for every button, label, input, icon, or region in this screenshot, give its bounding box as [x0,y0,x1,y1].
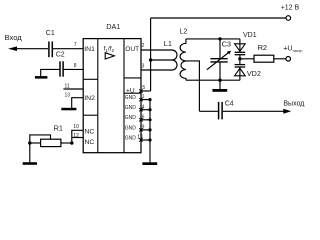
svg-text:C1: C1 [46,30,55,37]
wire +12V rail [151,17,286,19]
svg-text:L2: L2 [180,29,188,36]
IC left column divider IN1/IN2 [83,78,98,80]
svg-text:VD1: VD1 [243,32,257,39]
junction pin10/12 and R1 [70,141,73,144]
wire VD1 anode [239,39,241,44]
wire varicap node to R2 [240,58,254,60]
IC right column divider +U/GND [124,92,141,94]
svg-text:9: 9 [142,125,145,131]
wire R1 right lead [61,142,72,144]
IC right column divider OUT/+U [124,77,141,79]
svg-text:DA1: DA1 [106,22,120,31]
wire output to C4 [199,110,218,112]
junction C3 bottom [218,79,221,82]
pin number 4 [142,104,145,110]
svg-text:R1: R1 [54,124,63,133]
pin 13 stub wire to ground [72,98,84,108]
label C2 [56,51,65,58]
pin 9 GND stub [141,129,150,131]
svg-text:L1: L1 [164,39,172,48]
label C3 [222,40,231,49]
capacitor C3 adjustment arrow [207,51,231,70]
label DA1 [106,22,120,31]
pin 4 GND stub [141,109,150,111]
label IN1 [84,46,95,53]
label GND pin1 [125,95,137,101]
wire pin2 to L1 top [141,49,172,51]
ground (IC GND bus) [142,162,157,165]
svg-text:C4: C4 [225,101,234,108]
pin number 3 [142,63,145,69]
svg-text:Выход: Выход [283,100,304,107]
wire L2 tap to output [186,61,200,111]
wire C1 to pin7 [53,48,83,50]
varicap VD2 [235,65,246,76]
svg-text:GND: GND [125,105,137,111]
svg-text:13: 13 [65,92,71,98]
svg-text:NC: NC [85,139,95,146]
svg-text:2: 2 [142,43,145,49]
svg-text:10: 10 [73,124,79,130]
GND bus vertical wire [149,100,151,163]
svg-text:C2: C2 [56,51,65,58]
wire C3 bottom lead [219,63,221,90]
wire VD1-VD2 middle [239,55,241,65]
svg-text:VD2: VD2 [247,69,261,78]
wire tank top rail [186,38,240,40]
label VD1 [243,32,257,39]
resistor R2 body [254,55,274,62]
ground (C3 / tank) [212,89,227,92]
pin number 2 [142,43,145,49]
junction C3 top [218,37,221,40]
ground (pin 13) [61,108,76,111]
svg-text:GND: GND [125,115,137,121]
pin 6 nonlogic mark [139,118,142,121]
IC left column divider IN2/NC [83,114,98,116]
wire +12V vertical [150,18,152,91]
wire C2 to pin8 [64,68,83,70]
label IN2 [84,95,95,102]
wire C3 top lead [219,39,221,58]
IC internal divider right [123,39,125,153]
svg-text:GND: GND [125,95,137,101]
svg-text:GND: GND [125,125,137,131]
label NC pin12 [85,139,95,146]
capacitor C4 [219,102,223,120]
svg-text:f1/f2: f1/f2 [104,46,115,53]
label VD2 [247,69,261,78]
pin 9 nonlogic mark [139,128,142,131]
pin number 1 [142,94,145,100]
ground (C2 branch) [35,76,48,79]
svg-text:OUT: OUT [125,46,139,53]
label NC pin10 [85,129,95,136]
svg-text:R2: R2 [258,43,267,52]
junction GND pin6 [148,118,151,121]
wire input to C1 [15,48,48,50]
label R2 [258,43,267,52]
label L2 [180,29,188,36]
label GND pin4 [125,105,137,111]
pin 5 +U stub wire [141,90,151,92]
svg-text:1: 1 [142,94,145,100]
label C1 [46,30,55,37]
varicap VD1 [235,44,246,55]
IC internal divider left [97,39,99,153]
svg-text:3: 3 [142,63,145,69]
svg-text:Вход: Вход [5,33,23,42]
label +U настр [283,44,302,54]
junction GND pin4 [148,108,151,111]
label GND pin14 [125,135,137,141]
label GND pin9 [125,125,137,131]
svg-text:NC: NC [85,129,95,136]
pin number 14 [137,135,143,141]
wire VD2 bottom [239,76,241,80]
pin 5 nonlogic mark [139,89,142,92]
wire R1 left lead [30,142,41,144]
label Выход [283,100,304,107]
wire pin3 to L1 bottom [141,69,172,71]
junction varicap node [238,57,241,60]
pin 4 nonlogic mark [139,108,142,111]
svg-text:4: 4 [142,104,145,110]
wire R2 to terminal [274,58,286,60]
svg-text:+Uнастр: +Uнастр [283,44,302,54]
pin 14 nonlogic mark [139,138,142,141]
ground (R1) [23,162,37,165]
output arrow terminal [283,109,291,114]
label R1 [54,124,63,133]
+U tuning terminal [286,57,291,62]
wire L1 center tap [151,59,172,61]
+12V terminal [286,16,291,21]
pin number 12 [73,133,79,139]
node Вход label [5,33,23,42]
pin 12 stub wire [72,137,83,139]
svg-text:5: 5 [142,85,145,91]
amplifier triangle symbol [105,53,114,59]
R1 trimmer tap wire [30,135,51,162]
wire ground to C2 [41,69,60,76]
inductor L1 [172,50,177,70]
svg-text:IN2: IN2 [84,95,95,102]
pin number 8 [74,63,77,69]
capacitor C2 [60,61,63,76]
svg-text:7: 7 [74,42,77,48]
label f1/f2 [104,46,115,53]
pin 1 GND stub [141,99,150,101]
pin number 6 [142,114,145,120]
pin number 9 [142,125,145,131]
capacitor C1 [49,42,52,58]
pin 11 stub wire [63,88,83,90]
label C4 [225,101,234,108]
pin number 11 [65,84,70,90]
inductor L2 [180,39,186,80]
svg-text:8: 8 [74,63,77,69]
pin 6 GND stub [141,119,150,121]
svg-text:IN1: IN1 [84,46,95,53]
junction R1 left [28,141,31,144]
pin number 7 [74,42,77,48]
svg-text:C3: C3 [222,40,231,49]
pin number 5 [142,85,145,91]
pin 1 nonlogic mark [139,98,142,101]
junction GND pin1 [148,98,151,101]
input arrow terminal [8,46,17,51]
capacitor C3 (variable) plates [210,59,227,62]
pin number 10 [73,124,79,130]
svg-text:6: 6 [142,114,145,120]
pin number 13 [65,92,71,98]
svg-text:+U: +U [126,88,135,95]
junction GND pin9 [148,128,151,131]
pin 14 GND stub [141,139,150,141]
label OUT [125,46,139,53]
label GND pin6 [125,115,137,121]
pin 10 stub wire [72,130,83,143]
op-amp U1: IC DA1 outline [83,39,141,153]
label +U [126,88,135,95]
label +12 В [281,5,300,12]
wire tank bottom rail [186,79,240,81]
wire C4 to output arrow [223,110,284,112]
resistor R1 body [41,139,61,146]
svg-text:GND: GND [125,135,137,141]
junction L1 tap +12V [149,58,152,61]
junction GND pin14 [148,138,151,141]
svg-text:+12 В: +12 В [281,5,300,12]
label L1 [164,39,172,48]
